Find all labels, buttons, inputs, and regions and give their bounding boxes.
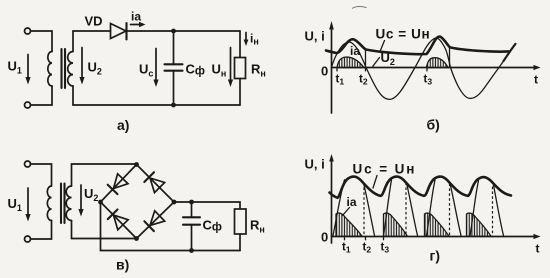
svg-text:г): г) — [430, 248, 441, 264]
svg-text:U, i: U, i — [305, 157, 325, 172]
svg-text:t: t — [536, 242, 540, 256]
svg-text:ia: ia — [131, 10, 141, 24]
svg-text:в): в) — [116, 257, 129, 273]
svg-text:0: 0 — [321, 64, 328, 79]
svg-text:а): а) — [117, 117, 129, 133]
svg-text:Uc = Uн: Uc = Uн — [376, 27, 431, 42]
svg-text:0: 0 — [321, 230, 328, 245]
svg-text:VD: VD — [85, 14, 103, 29]
svg-text:ia: ia — [350, 44, 360, 58]
svg-text:ia: ia — [347, 195, 357, 209]
svg-text:t: t — [534, 73, 538, 87]
svg-text:Uc = Uн: Uc = Uн — [353, 162, 417, 177]
svg-text:б): б) — [427, 117, 440, 133]
svg-text:U, i: U, i — [305, 29, 325, 44]
